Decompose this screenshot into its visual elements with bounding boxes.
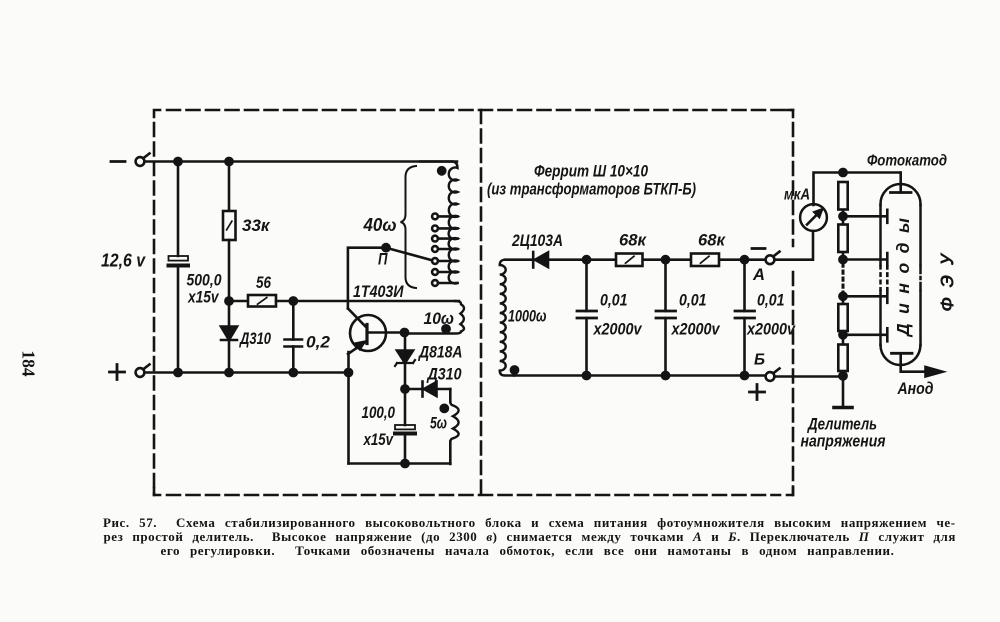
- dynode lead 1: [843, 210, 887, 223]
- svg-text:56: 56: [256, 273, 271, 292]
- node H2: [662, 372, 669, 379]
- svg-text:40ω: 40ω: [363, 215, 397, 235]
- svg-text:А: А: [752, 265, 765, 284]
- winding L3 5w: [449, 389, 452, 464]
- terminal B: [766, 372, 775, 381]
- ground: [842, 377, 845, 407]
- node C: [225, 369, 232, 376]
- wire A to meter: [774, 230, 813, 260]
- node E (base node): [401, 329, 408, 336]
- wire B to divider: [774, 182, 843, 377]
- divider resistor R5: [838, 182, 847, 210]
- anode: [892, 352, 913, 355]
- node H3: [741, 372, 748, 379]
- node top1: [174, 158, 181, 165]
- node G2: [662, 256, 669, 263]
- divider resistor R7: [838, 304, 847, 331]
- wire meter to chain: [814, 173, 900, 206]
- terminal minus: [111, 160, 125, 163]
- node chain 1: [839, 213, 846, 220]
- winding L2 10w: [407, 301, 464, 334]
- wire emitter down: [347, 352, 350, 464]
- resistor R2 56: [229, 300, 248, 303]
- transistor Q1 1T403I: [350, 315, 386, 351]
- svg-text:Б: Б: [754, 352, 765, 369]
- svg-text:68к: 68к: [698, 231, 726, 250]
- svg-text:12,6 v: 12,6 v: [101, 251, 146, 271]
- enclosure corners: [154, 110, 793, 495]
- resistor R1 33k: [228, 162, 231, 212]
- capacitor C6 0,01: [743, 260, 746, 311]
- svg-text:2Ц103А: 2Ц103А: [511, 231, 563, 250]
- svg-text:Диноды: Диноды: [893, 218, 913, 338]
- diode VD3 D310: [405, 388, 422, 391]
- brace 40w: [401, 166, 417, 288]
- inner dotted dynode line: [886, 266, 889, 290]
- terminal A: [766, 255, 775, 264]
- resistor R3 68k: [616, 254, 643, 267]
- wire collector line: [276, 300, 459, 303]
- node chain 3: [839, 293, 846, 300]
- svg-text:100,0: 100,0: [362, 403, 396, 422]
- node G3: [741, 256, 748, 263]
- resistor R4 68k: [691, 254, 719, 267]
- svg-text:Делитель: Делитель: [806, 416, 877, 434]
- svg-text:Феррит Ш 10×10: Феррит Ш 10×10: [534, 162, 648, 181]
- node chain bottom: [839, 372, 846, 379]
- node bottom loop junction: [401, 460, 408, 467]
- svg-text:х15v: х15v: [187, 288, 220, 307]
- dynode lead 3: [843, 290, 887, 303]
- svg-text:х15v: х15v: [363, 430, 394, 449]
- terminal plus: [136, 368, 145, 377]
- capacitor C3 100,0 x15v: [404, 389, 407, 425]
- meter uA: [800, 204, 827, 231]
- svg-text:Д310: Д310: [426, 365, 462, 384]
- taps: [432, 214, 457, 286]
- svg-text:0,01: 0,01: [757, 291, 785, 310]
- photocathode: [899, 173, 902, 193]
- svg-text:Д818А: Д818А: [417, 343, 462, 362]
- svg-text:33к: 33к: [242, 216, 271, 235]
- svg-text:1000ω: 1000ω: [508, 307, 547, 326]
- winding start dot L2: [442, 325, 449, 332]
- PMT tube FEU: [881, 184, 921, 365]
- svg-text:напряжения: напряжения: [801, 433, 886, 451]
- winding start dot L1: [438, 167, 445, 174]
- dashed divider: [480, 110, 483, 495]
- svg-text:68к: 68к: [619, 231, 647, 250]
- svg-text:х2000v: х2000v: [593, 320, 643, 339]
- diode VD1 D310: [228, 301, 231, 326]
- node H1: [583, 372, 590, 379]
- divider resistor R6: [838, 225, 847, 253]
- svg-text:(из трансформаторов БТКП-Б): (из трансформаторов БТКП-Б): [487, 180, 696, 199]
- svg-text:0,01: 0,01: [679, 291, 707, 310]
- node D2: [290, 369, 297, 376]
- node top2: [225, 158, 232, 165]
- capacitor C1 500,0 x15v: [177, 162, 180, 257]
- svg-text:5ω: 5ω: [430, 414, 447, 433]
- svg-text:Фотокатод: Фотокатод: [867, 153, 947, 170]
- svg-text:10ω: 10ω: [424, 309, 455, 328]
- svg-text:П: П: [378, 250, 388, 269]
- diode VD4 2Ts103A: [532, 252, 535, 268]
- switch P wire: [348, 248, 386, 309]
- svg-text:0,01: 0,01: [600, 291, 628, 310]
- svg-text:Анод: Анод: [897, 380, 934, 398]
- svg-text:Д310: Д310: [238, 329, 271, 348]
- figure caption: [103, 515, 956, 531]
- node G1: [583, 256, 590, 263]
- dashed enclosure border: [154, 110, 793, 495]
- dynode lead 2: [843, 253, 887, 266]
- svg-text:0,2: 0,2: [306, 333, 331, 352]
- svg-text:1Т403И: 1Т403И: [353, 282, 404, 301]
- node D (0,2 junction): [290, 297, 297, 304]
- wire bottom rail: [144, 371, 348, 374]
- winding L1 40w: [420, 160, 452, 163]
- winding start dot L3: [441, 405, 448, 412]
- capacitor C5 0,01: [664, 260, 667, 311]
- wire top rail: [144, 160, 457, 163]
- node chain top: [839, 169, 846, 176]
- svg-text:мкА: мкА: [784, 187, 810, 204]
- node C2: [174, 369, 181, 376]
- node B (56 junction): [225, 297, 232, 304]
- capacitor C4 0,01: [585, 260, 588, 311]
- svg-text:х2000v: х2000v: [671, 320, 721, 339]
- page number 184: [18, 350, 39, 376]
- winding start dot L4: [511, 366, 518, 373]
- node chain 2: [839, 256, 846, 263]
- dynode lead 4: [843, 328, 887, 341]
- dotted chain section: [842, 262, 845, 295]
- node emitter junction: [345, 369, 352, 376]
- zener VD2 D818A: [404, 333, 407, 351]
- wire bottom loop: [349, 462, 451, 465]
- svg-text:ФЭУ: ФЭУ: [938, 252, 958, 312]
- node F: [401, 385, 408, 392]
- node chain 4: [839, 331, 846, 338]
- divider resistor R8: [838, 345, 847, 372]
- svg-text:х2000v: х2000v: [746, 320, 796, 339]
- wire secondary bottom: [514, 374, 766, 377]
- winding L4 1000w secondary: [505, 258, 533, 261]
- switch P pole: [382, 244, 389, 251]
- capacitor C2 0,2: [292, 301, 295, 340]
